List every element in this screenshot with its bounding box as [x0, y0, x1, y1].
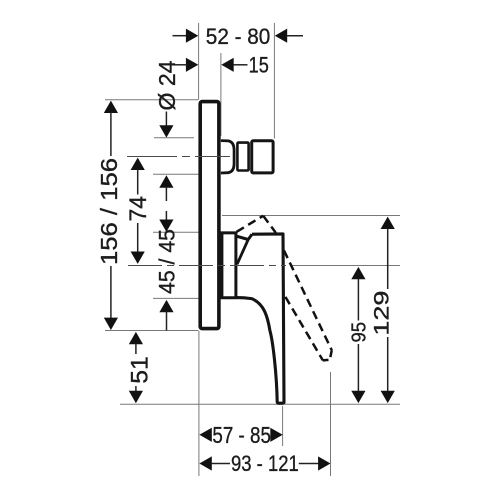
extension line knob bottom y=174.3 [153, 173, 199, 175]
centerline knob axis [127, 156, 230, 158]
dim 129 up arrow [381, 217, 395, 229]
extension line plate front face x=220.9 [220, 53, 222, 136]
dim 95 line upper [357, 279, 359, 321]
dim 74 down arrow [131, 252, 145, 264]
extension line sleeve top y=232.3 [153, 231, 199, 233]
handle sleeve [222, 233, 236, 298]
lever body white mask [235, 234, 285, 402]
dim 95 up arrow [351, 267, 365, 279]
svg-text:Ø 24: Ø 24 [154, 60, 180, 110]
extension line knob top y=137.8 [154, 137, 194, 139]
dim 57-85 left arrow [199, 428, 211, 442]
dim 95 down arrow [351, 391, 365, 403]
dim 129 line upper [387, 228, 389, 289]
svg-text:95: 95 [347, 322, 370, 343]
dim 45/45 down arrow [159, 220, 173, 232]
dim 51 down arrow [129, 391, 143, 403]
dim 74 line lower [137, 223, 139, 252]
svg-text:15: 15 [249, 53, 269, 78]
dim 74 up arrow [131, 158, 145, 170]
extension line plate bottom y=330.5 [105, 330, 199, 332]
dim 15 left arrow [186, 58, 198, 72]
lever outline [237, 234, 284, 403]
lever neck joint lower [237, 240, 248, 265]
dim 15 left leader [173, 64, 188, 66]
wall plate [200, 102, 219, 329]
extension line dashed tip x=330.5 [330, 372, 332, 476]
dim 95 line lower [357, 344, 359, 391]
dim 156/156 line upper [110, 112, 112, 156]
knob block piece [252, 141, 273, 173]
dim 156/156 down arrow [104, 318, 118, 330]
extension line handle tip x=282.6 [282, 406, 284, 446]
dim 52-80 right arrow [275, 29, 287, 43]
dashed lever outline upper edge [263, 216, 332, 350]
dim O24 stub lower [165, 187, 167, 201]
dim 93-121 right arrow [318, 456, 330, 470]
dim 156/156 up arrow [104, 101, 118, 113]
svg-text:52 - 80: 52 - 80 [206, 24, 270, 49]
dim 74 line upper [137, 169, 139, 194]
svg-text:51: 51 [126, 356, 153, 384]
extension line wall/back face top x=198.6 [198, 23, 200, 100]
extension line sleeve bottom y=298.4 [153, 297, 199, 299]
svg-text:74: 74 [125, 196, 152, 222]
dim 93-121 left stub [211, 463, 230, 465]
extension line plate top y=99.8 [105, 99, 199, 101]
dim 52-80 left leader [173, 35, 188, 37]
dashed lever outline left edge [237, 216, 264, 232]
extension line 95 top y=265.4 right part [290, 265, 400, 267]
dim 93-121 right stub [299, 463, 319, 465]
extension line below plate x=198.9 [198, 331, 200, 476]
baseline handle tip y=404.3 [120, 403, 400, 405]
dim O24 down arrow [159, 125, 173, 137]
dim O24 stub upper [165, 112, 167, 127]
dim 129 down arrow [381, 391, 395, 403]
svg-text:129: 129 [369, 291, 393, 336]
svg-text:156 / 156: 156 / 156 [96, 158, 122, 265]
dim 93-121 left arrow [199, 456, 211, 470]
dim 52-80 right leader [287, 35, 304, 37]
dashed lever tip [323, 350, 332, 360]
centerline cartridge axis [128, 265, 286, 267]
svg-text:57 - 85: 57 - 85 [212, 422, 271, 448]
svg-text:93 - 121: 93 - 121 [231, 451, 299, 476]
dim 51 up arrow [129, 332, 143, 344]
dim 45/45 up arrow [159, 300, 173, 312]
extension line dashed-lever top y=215.5 [222, 215, 400, 217]
dashed lever outline lower edge [265, 262, 323, 360]
dim 51 line lower [135, 386, 137, 392]
extension line knob front face x=274.4 [273, 23, 275, 139]
knob ring piece [237, 143, 248, 171]
dim O24 up arrow [159, 175, 173, 187]
dim 129 line lower [387, 337, 389, 391]
lever neck joint upper [235, 234, 252, 239]
svg-text:45 / 45: 45 / 45 [154, 229, 179, 294]
dim 15 right arrow [221, 58, 233, 72]
dim 45/45 stub lower [166, 312, 168, 331]
dim 52-80 left arrow [186, 29, 198, 43]
dim 45/45 stub upper [165, 211, 167, 220]
knob taper piece [221, 141, 234, 173]
dim 15 leader to text [233, 64, 248, 66]
dim 51 line upper [135, 344, 137, 354]
dim 156/156 line lower [110, 266, 112, 318]
dim 57-85 right arrow [270, 428, 282, 442]
